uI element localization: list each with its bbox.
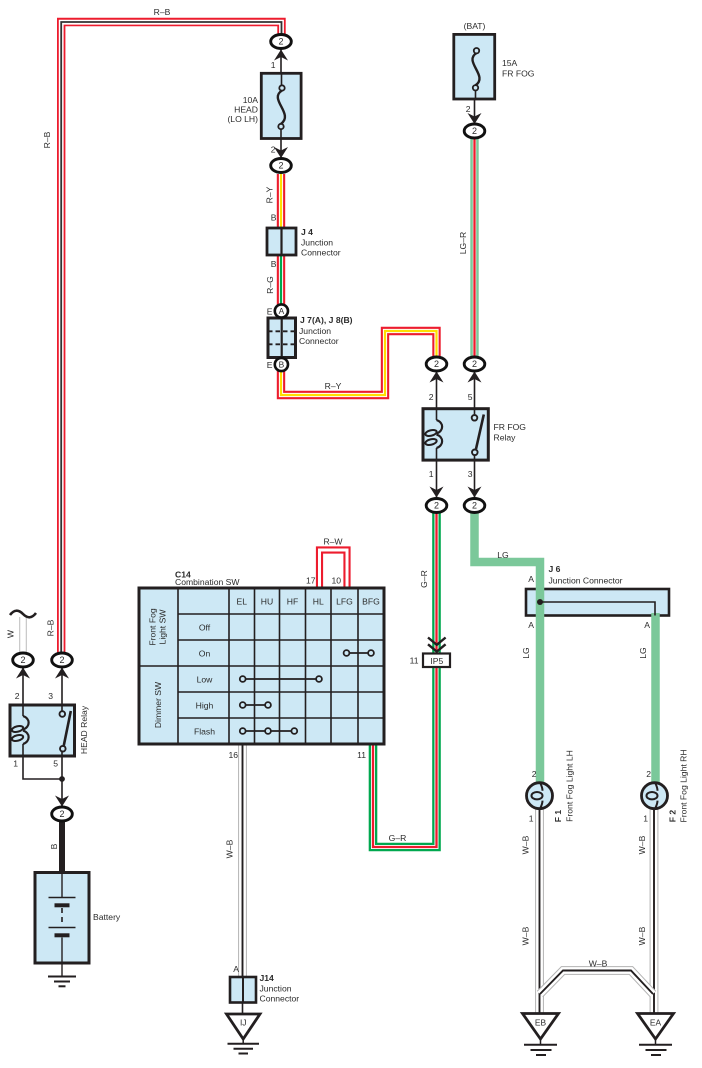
wire W-B crossover between EB and EA legs [540,971,653,995]
arrow up into ellipse above relay pin 2 [430,372,444,383]
svg-text:W–B: W–B [637,926,647,945]
svg-text:B: B [279,360,285,370]
ground triangle EB [523,1014,559,1056]
wire LG relay pin3 to J6 and fog light LH [475,513,541,784]
contact On LFG-BFG [344,650,374,656]
arrow down into ellipse below 15A fuse [468,113,482,124]
svg-text:A: A [528,620,534,630]
relay contact [474,409,476,460]
wire R-Y fuse to J4 [277,174,285,248]
svg-text:W–B: W–B [589,959,608,969]
contact Flash EL-HU-HF [240,728,297,734]
svg-text:EB: EB [535,1018,547,1028]
svg-text:EL: EL [237,597,248,607]
svg-text:2: 2 [59,809,64,819]
svg-text:J 7(A), J 8(B): J 7(A), J 8(B) [300,315,353,325]
IP5 connector pass-through chevrons [428,638,446,652]
wire W with break to HEAD relay pin 2 [19,616,26,653]
svg-text:1: 1 [13,759,18,769]
svg-text:A: A [233,964,239,974]
svg-text:LG–R: LG–R [458,232,468,254]
svg-text:3: 3 [468,469,473,479]
svg-text:HU: HU [261,597,273,607]
wire R-W loop combination SW pins 17-10 [320,550,348,588]
svg-text:(BAT): (BAT) [464,21,486,31]
ground triangle IJ [227,1014,261,1054]
svg-text:2: 2 [466,104,471,114]
svg-text:G–R: G–R [389,833,407,843]
svg-text:FR FOG: FR FOG [494,422,527,432]
svg-text:J 4: J 4 [301,227,313,237]
svg-text:LG: LG [521,647,531,659]
svg-text:J14: J14 [260,973,275,983]
svg-text:1: 1 [529,814,534,824]
svg-text:W–B: W–B [521,926,531,945]
svg-text:Front Fog: Front Fog [148,608,158,645]
svg-text:Front Fog Light LH: Front Fog Light LH [565,750,575,822]
junction connector J6 box [526,589,669,616]
thin pin stubs [23,48,475,1014]
svg-text:Relay: Relay [494,433,517,443]
front fog light RH bulb F2 [642,783,668,809]
svg-text:10: 10 [331,576,341,586]
svg-text:IP5: IP5 [430,656,443,666]
svg-text:W–B: W–B [521,835,531,854]
svg-text:W: W [6,629,16,638]
svg-text:Connector: Connector [301,248,341,258]
fuse 10A HEAD (LO LH) [261,73,301,138]
wire B battery positive [59,820,65,873]
svg-text:Low: Low [197,675,214,685]
svg-text:2: 2 [434,501,439,511]
svg-text:10A: 10A [243,95,259,105]
wire R-Y from J7/J8 B to FR FOG relay pin 2 [281,331,437,395]
contact High EL-HU [240,702,271,708]
arrow up into ellipse above HEAD relay pin 2 [16,668,30,679]
battery box [35,873,89,964]
wire W-B combination SW pin16 to J14 [238,744,247,977]
wire R-G J4 to J7/J8 [277,250,285,305]
svg-text:Junction Connector: Junction Connector [549,576,623,586]
svg-text:G–R: G–R [419,570,429,588]
svg-text:F 1: F 1 [553,810,563,823]
svg-text:BFG: BFG [362,597,380,607]
connector ellipses "2" [13,35,485,822]
J6 internal bus [537,599,655,616]
junction connector J4 [267,228,296,255]
svg-text:A: A [528,574,534,584]
arrow up into ellipse above relay pin 5 [468,372,482,383]
svg-text:HL: HL [313,597,324,607]
wire W-B fog light LH to ground EB [535,808,544,1013]
svg-text:2: 2 [278,37,283,47]
junction connector J7(A) J8(B) [268,318,296,358]
svg-text:R–B: R–B [46,619,56,636]
wire W-B fog light RH to ground EA [650,808,659,1013]
svg-text:Combination SW: Combination SW [175,577,240,587]
arrow down into ellipse above battery [55,796,69,807]
svg-text:R–Y: R–Y [325,381,342,391]
svg-text:(LO LH): (LO LH) [227,114,258,124]
svg-text:Connector: Connector [260,994,300,1004]
battery ground symbol [48,963,76,986]
svg-text:R–W: R–W [323,537,343,547]
svg-text:11: 11 [357,750,366,760]
node A circle J7 [275,304,288,317]
HEAD relay coil [23,716,29,744]
svg-text:2: 2 [429,392,434,402]
fuse 15A FR FOG [454,34,495,99]
svg-text:IJ: IJ [240,1018,247,1028]
svg-text:A: A [644,620,650,630]
svg-text:11: 11 [410,656,419,666]
IP5 connector box [423,654,450,668]
svg-text:W–B: W–B [637,835,647,854]
arrow up into ellipse at 10A fuse top [274,50,288,61]
svg-text:LFG: LFG [336,597,353,607]
svg-text:Battery: Battery [93,912,121,922]
combination switch C14 table [139,588,384,744]
svg-text:FR FOG: FR FOG [502,69,535,79]
svg-text:5: 5 [468,392,473,402]
svg-text:W–B: W–B [225,839,235,858]
wire R-B from battery feed to 10A fuse and HEAD relay [61,22,281,654]
svg-text:R–G: R–G [265,276,275,294]
svg-text:1: 1 [429,469,434,479]
svg-text:2: 2 [20,655,25,665]
node B circle J8 [275,358,288,371]
svg-text:HF: HF [287,597,298,607]
ground triangle EA [638,1014,674,1056]
arrow down into ellipse below relay pin 1 [430,487,444,498]
svg-text:Dimmer SW: Dimmer SW [153,681,163,728]
svg-text:HEAD Relay: HEAD Relay [79,705,89,754]
svg-text:F 2: F 2 [668,810,678,823]
break squiggle [10,611,36,618]
junction connector J14 [230,977,256,1003]
svg-text:2: 2 [59,655,64,665]
svg-text:Junction: Junction [260,984,292,994]
front fog light LH bulb F1 [527,783,553,809]
svg-text:HEAD: HEAD [234,105,258,115]
wire LG-R 15A fuse to FR FOG relay pin 5 [470,139,478,357]
svg-text:Flash: Flash [194,727,215,737]
svg-text:Junction: Junction [299,326,331,336]
svg-text:LG: LG [497,550,509,560]
svg-text:On: On [199,649,211,659]
HEAD relay contact [61,705,63,755]
svg-text:2: 2 [472,501,477,511]
svg-text:Light SW: Light SW [158,609,168,645]
svg-text:5: 5 [53,759,58,769]
svg-text:R–Y: R–Y [265,186,275,203]
svg-text:3: 3 [48,691,53,701]
svg-text:B: B [271,259,277,269]
svg-text:J 6: J 6 [549,564,561,574]
svg-text:Junction: Junction [301,238,333,248]
svg-text:R–B: R–B [42,131,52,148]
svg-text:Off: Off [199,623,211,633]
arrow down into ellipse below 10A fuse [274,147,288,158]
svg-text:1: 1 [643,814,648,824]
svg-text:16: 16 [228,750,238,760]
arrow down into ellipse below relay pin 3 [468,487,482,498]
svg-text:B: B [271,213,277,223]
wire G-R relay pin1 through IP5 to combination SW pin 11 [373,513,437,847]
svg-text:2: 2 [278,161,283,171]
svg-text:E: E [267,360,273,370]
svg-text:2: 2 [472,126,477,136]
svg-text:2: 2 [271,145,276,155]
arrow up into ellipse above HEAD relay pin 3 [55,668,69,679]
svg-text:E: E [267,307,273,317]
HEAD relay box [10,705,75,756]
svg-text:2: 2 [646,769,651,779]
svg-text:EA: EA [650,1018,662,1028]
wire LG J6 to fog light RH [651,613,660,784]
svg-text:A: A [279,306,285,316]
svg-text:2: 2 [532,769,537,779]
svg-text:2: 2 [434,359,439,369]
svg-text:Front Fog Light RH: Front Fog Light RH [679,749,689,822]
connector arrows [16,50,482,807]
svg-text:R–B: R–B [154,7,171,17]
svg-text:2: 2 [15,691,20,701]
relay coil [437,420,443,448]
svg-text:2: 2 [472,359,477,369]
svg-text:B: B [49,843,59,849]
svg-text:Connector: Connector [299,336,339,346]
svg-text:15A: 15A [502,58,518,68]
junction dot HEAD relay output [59,776,65,782]
svg-text:17: 17 [306,576,316,586]
FR FOG relay box [423,409,488,460]
svg-text:1: 1 [271,60,276,70]
svg-text:High: High [196,701,214,711]
svg-text:LG: LG [638,647,648,659]
contact Low EL-HL [240,676,322,682]
